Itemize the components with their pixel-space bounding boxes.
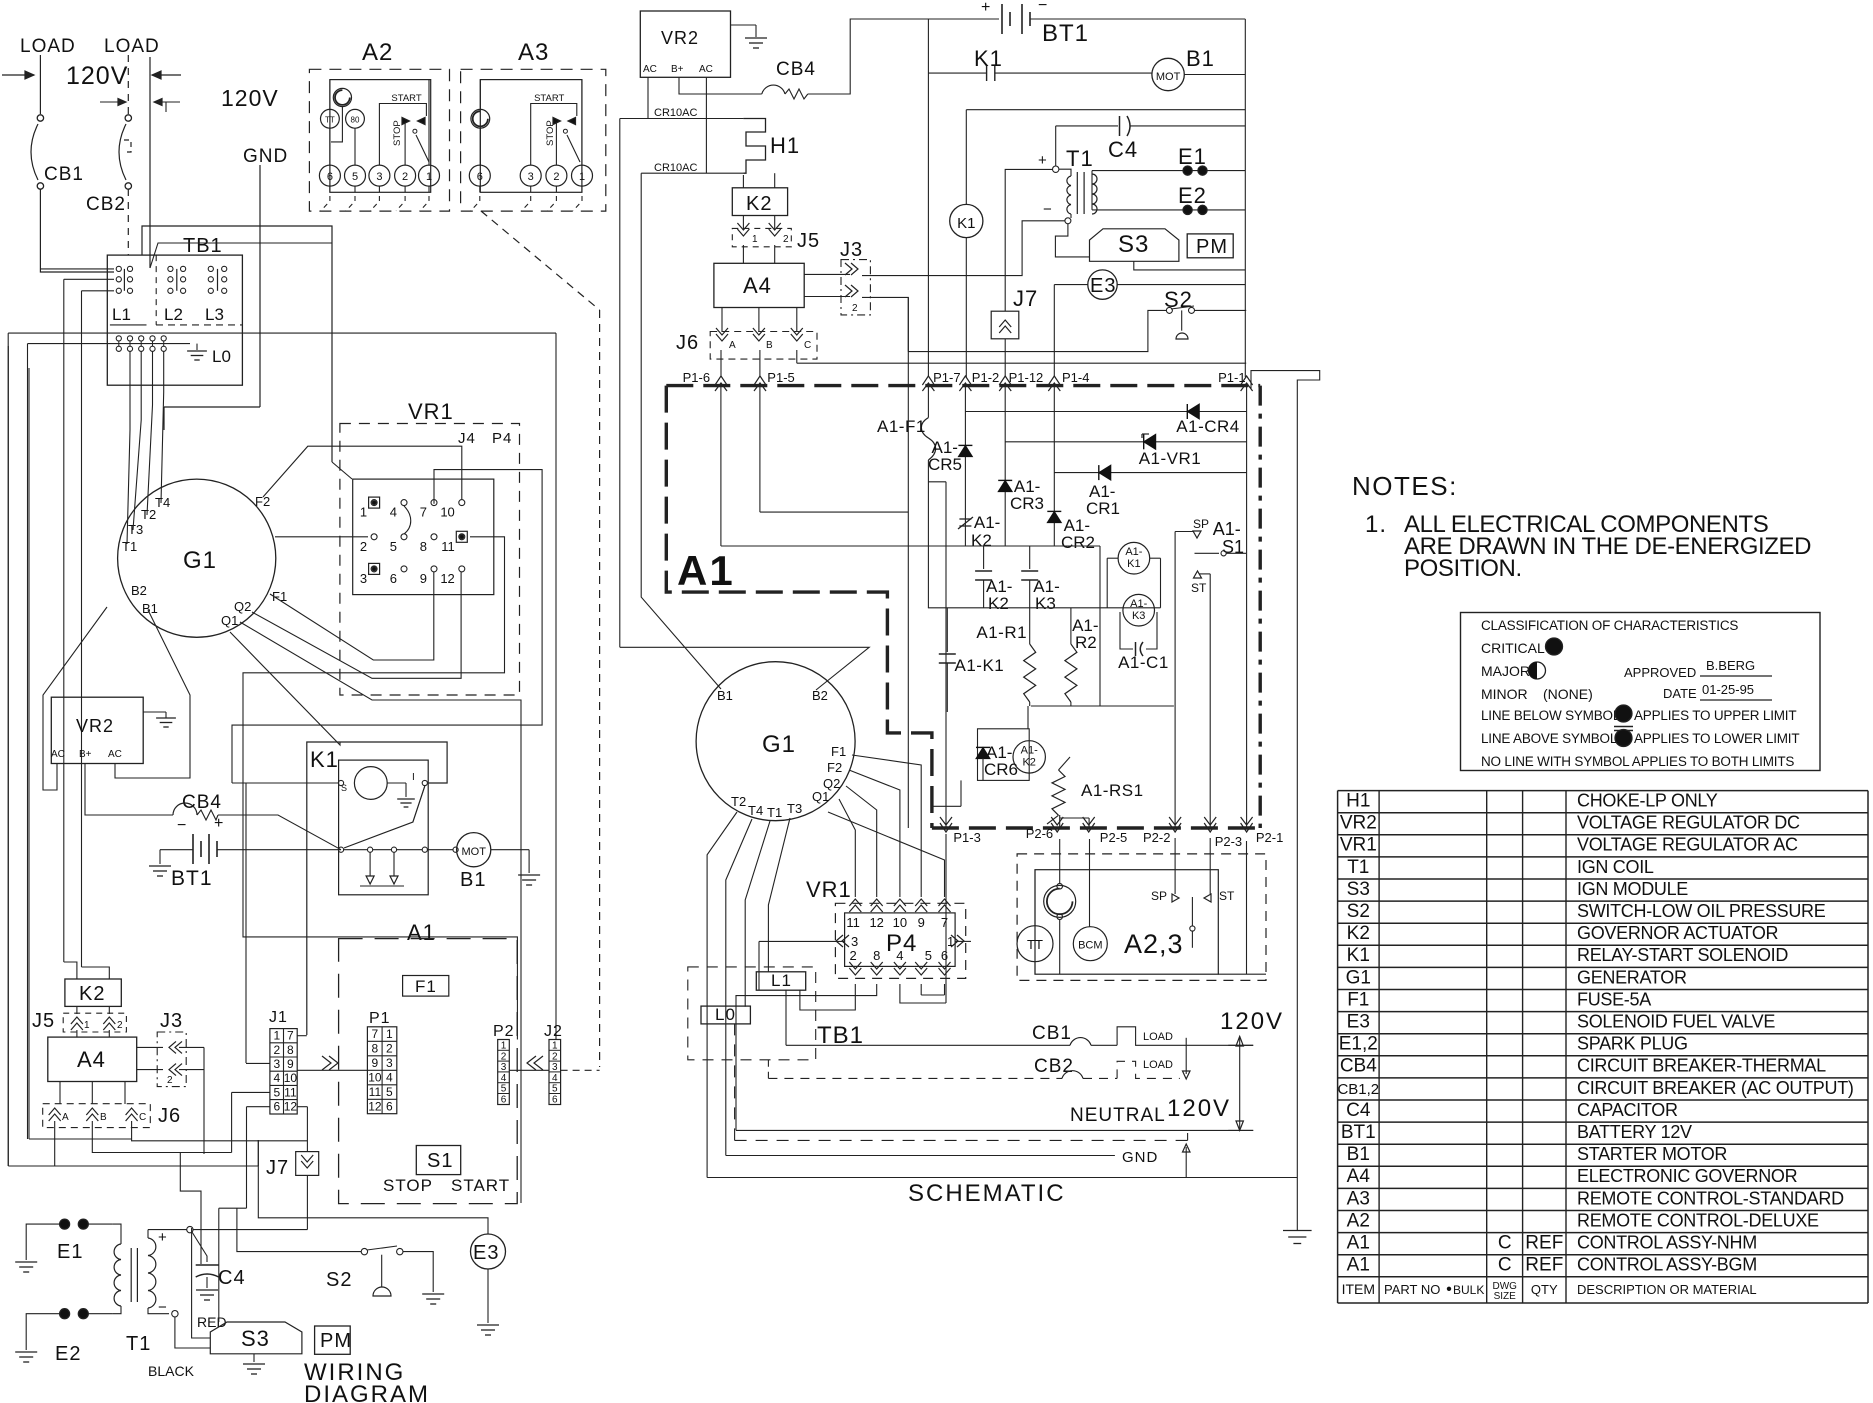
- svg-text:3: 3: [274, 1057, 281, 1071]
- svg-text:K1: K1: [1347, 945, 1370, 966]
- bottom bus: [1031, 705, 1174, 707]
- svg-text:A2: A2: [362, 39, 393, 66]
- svg-text:LOAD: LOAD: [104, 36, 160, 57]
- svg-text:TT: TT: [325, 116, 335, 125]
- 120V tall arrow: [1239, 1036, 1241, 1130]
- svg-text:1: 1: [579, 171, 585, 183]
- arrow into line2: [152, 74, 181, 76]
- choke H1: [743, 119, 765, 174]
- svg-text:PM: PM: [1196, 236, 1228, 258]
- svg-text:120V: 120V: [1220, 1008, 1284, 1035]
- svg-text:J7: J7: [266, 1157, 289, 1179]
- svg-text:RED: RED: [197, 1314, 227, 1330]
- svg-text:CR1: CR1: [1086, 499, 1120, 518]
- svg-text:P1-4: P1-4: [1062, 370, 1089, 385]
- svg-text:2: 2: [783, 234, 789, 245]
- svg-text:F2: F2: [255, 494, 270, 509]
- svg-text:120V: 120V: [1167, 1095, 1231, 1122]
- svg-text:9: 9: [420, 571, 427, 586]
- svg-text:CIRCUIT BREAKER-THERMAL: CIRCUIT BREAKER-THERMAL: [1577, 1056, 1826, 1076]
- svg-text:CRITICAL: CRITICAL: [1481, 640, 1545, 656]
- svg-text:APPLIES TO LOWER LIMIT: APPLIES TO LOWER LIMIT: [1634, 731, 1799, 746]
- svg-text:ITEM: ITEM: [1342, 1281, 1375, 1297]
- svg-text:T3: T3: [787, 801, 802, 816]
- svg-text:B.BERG: B.BERG: [1706, 658, 1755, 673]
- wires A4 bottom to J6: [721, 308, 723, 333]
- svg-text:CAPACITOR: CAPACITOR: [1577, 1100, 1678, 1120]
- VR1 internal wires: [243, 537, 517, 1040]
- wire AC left / CR10AC: [647, 77, 649, 118]
- svg-text:NO LINE WITH SYMBOL APPLIES TO: NO LINE WITH SYMBOL APPLIES TO BOTH LIMI…: [1481, 754, 1794, 769]
- svg-text:ST: ST: [1191, 581, 1207, 595]
- remote control A2,3 (schematic): [1017, 854, 1266, 981]
- svg-text:NOTES:: NOTES:: [1352, 471, 1458, 501]
- svg-text:B2: B2: [131, 583, 147, 598]
- svg-text:L1: L1: [112, 305, 131, 324]
- wires TB1 left entries: [40, 268, 114, 270]
- svg-text:C4: C4: [1346, 1100, 1371, 1121]
- svg-text:1: 1: [84, 1020, 90, 1031]
- svg-text:S: S: [341, 783, 347, 793]
- svg-text:7: 7: [372, 1027, 379, 1041]
- svg-text:2: 2: [501, 1051, 507, 1062]
- svg-text:GENERATOR: GENERATOR: [1577, 967, 1687, 987]
- svg-text:01-25-95: 01-25-95: [1702, 682, 1754, 697]
- svg-text:K1: K1: [1127, 558, 1140, 570]
- svg-text:T2: T2: [141, 507, 156, 522]
- svg-text:3: 3: [360, 571, 367, 586]
- svg-text:2: 2: [360, 539, 367, 554]
- TB1 upper terminals: [116, 266, 121, 271]
- contact cap A1-K3: [1029, 546, 1031, 569]
- svg-text:1: 1: [426, 171, 432, 183]
- governor A4 (wiring diagram): [48, 1037, 137, 1081]
- svg-text:BCM: BCM: [1078, 940, 1102, 952]
- svg-text:MAJOR: MAJOR: [1481, 663, 1530, 679]
- actuator K2 (wiring diagram): [65, 979, 121, 1006]
- svg-text:A1-K1: A1-K1: [955, 656, 1005, 675]
- svg-text:LOAD: LOAD: [20, 36, 76, 57]
- svg-text:R2: R2: [1075, 633, 1097, 652]
- svg-text:CONTROL ASSY-BGM: CONTROL ASSY-BGM: [1577, 1255, 1757, 1275]
- svg-text:1: 1: [501, 1041, 507, 1052]
- svg-text:J3: J3: [840, 239, 863, 261]
- svg-text:CR5: CR5: [928, 455, 962, 474]
- svg-text:CB2: CB2: [86, 194, 126, 215]
- svg-text:5: 5: [501, 1084, 507, 1095]
- svg-text:9: 9: [372, 1056, 379, 1070]
- svg-text:J5: J5: [797, 230, 820, 252]
- svg-text:ST: ST: [1219, 889, 1235, 903]
- svg-text:CB4: CB4: [1340, 1056, 1377, 1077]
- svg-text:5: 5: [352, 171, 358, 183]
- svg-text:C4: C4: [1108, 137, 1138, 162]
- svg-text:LOAD: LOAD: [1143, 1059, 1173, 1071]
- box L1: [756, 972, 805, 990]
- svg-text:NEUTRAL: NEUTRAL: [1070, 1105, 1166, 1126]
- ground at L0: [196, 344, 198, 350]
- svg-text:12: 12: [368, 1099, 382, 1113]
- CB lines left verticals: [785, 990, 787, 1046]
- svg-text:P4: P4: [492, 430, 512, 447]
- svg-text:VR2: VR2: [1340, 813, 1377, 834]
- svg-text:CR3: CR3: [1010, 494, 1044, 513]
- diode A1-CR6 + coil A1-K2 box: [978, 729, 1030, 781]
- small arrows at 120V second: [100, 101, 126, 103]
- svg-text:E1: E1: [57, 1241, 83, 1263]
- svg-text:9: 9: [918, 915, 925, 930]
- svg-text:VR2: VR2: [76, 716, 114, 736]
- svg-text:A2: A2: [1347, 1210, 1370, 1231]
- svg-text:F1: F1: [1347, 989, 1369, 1010]
- svg-text:BT1: BT1: [1341, 1122, 1376, 1143]
- parts list table: [1338, 790, 1868, 792]
- svg-text:LOAD: LOAD: [1143, 1031, 1173, 1043]
- svg-text:Q2: Q2: [234, 599, 251, 614]
- svg-text:C: C: [1498, 1233, 1512, 1254]
- svg-text:TB1: TB1: [183, 235, 223, 257]
- svg-text:J3: J3: [160, 1010, 183, 1032]
- svg-text:K2: K2: [971, 531, 992, 550]
- svg-text:SWITCH-LOW OIL PRESSURE: SWITCH-LOW OIL PRESSURE: [1577, 901, 1826, 921]
- spark plugs E1 E2 (schematic): [1092, 170, 1245, 172]
- wire LOAD line 1 with arrow: [2, 74, 34, 76]
- diode A1-CR4 row: [965, 411, 1246, 413]
- svg-text:A1-R1: A1-R1: [976, 623, 1027, 642]
- svg-text:3: 3: [552, 1062, 558, 1073]
- svg-text:T4: T4: [748, 803, 763, 818]
- svg-text:7: 7: [941, 915, 948, 930]
- P2 chevrons on bottom border: [940, 817, 952, 832]
- svg-text:6: 6: [390, 571, 397, 586]
- red wire to S3: [192, 1232, 207, 1262]
- svg-text:4: 4: [896, 948, 903, 963]
- svg-text:CHOKE-LP ONLY: CHOKE-LP ONLY: [1577, 791, 1718, 811]
- B2 wire long left: [620, 647, 869, 690]
- svg-text:E2: E2: [55, 1343, 81, 1365]
- right rail: [1244, 19, 1246, 377]
- wires J6 down to P1 chevrons: [720, 350, 722, 377]
- svg-text:FUSE-5A: FUSE-5A: [1577, 989, 1651, 1009]
- svg-text:B1: B1: [1186, 46, 1215, 71]
- voltage regulator VR2 (schematic): [640, 11, 730, 77]
- svg-text:5: 5: [390, 539, 397, 554]
- svg-text:K3: K3: [1035, 594, 1056, 613]
- svg-text:G1: G1: [762, 731, 796, 758]
- G1 stator wires to TB1: [127, 351, 130, 544]
- svg-text:A1-: A1-: [1130, 598, 1147, 610]
- svg-text:REF: REF: [1525, 1233, 1563, 1254]
- svg-text:START: START: [391, 93, 421, 104]
- svg-text:P1-12: P1-12: [1009, 370, 1044, 385]
- J3-2 / S2 leg: [907, 297, 909, 828]
- G1 F2 wire to VR1 pin10: [263, 446, 462, 499]
- svg-text:E3: E3: [1090, 275, 1116, 297]
- A2 internal wires: [329, 80, 331, 110]
- svg-text:6: 6: [477, 171, 483, 183]
- svg-text:K2: K2: [746, 193, 772, 215]
- svg-text:MINOR: MINOR: [1481, 686, 1528, 702]
- svg-text:GND: GND: [243, 146, 288, 167]
- schematic bottom rail: [707, 1177, 1297, 1179]
- svg-text:BULK: BULK: [1453, 1283, 1484, 1297]
- svg-text:J7: J7: [1013, 286, 1038, 311]
- svg-text:A1-: A1-: [1213, 519, 1241, 539]
- second rail: [966, 109, 1245, 111]
- svg-text:SP: SP: [1151, 889, 1167, 903]
- wires G1 right to P4 chevrons: [852, 755, 921, 897]
- capacitor C4 (schematic): [1056, 125, 1118, 127]
- svg-text:T1: T1: [767, 805, 782, 820]
- svg-text:3: 3: [376, 171, 382, 183]
- svg-text:P1: P1: [369, 1010, 391, 1027]
- svg-text:K3: K3: [1132, 610, 1145, 622]
- svg-text:DESCRIPTION OR MATERIAL: DESCRIPTION OR MATERIAL: [1577, 1282, 1757, 1297]
- svg-text:MOT: MOT: [1156, 71, 1181, 83]
- svg-text:2: 2: [274, 1043, 281, 1057]
- svg-text:K2: K2: [1347, 923, 1370, 944]
- SP/ST wires down to P2: [1175, 531, 1193, 533]
- A2 meter 80: [346, 109, 365, 128]
- box PM (schematic): [1187, 234, 1233, 258]
- svg-text:APPLIES TO UPPER LIMIT: APPLIES TO UPPER LIMIT: [1634, 708, 1796, 723]
- svg-text:A1-RS1: A1-RS1: [1081, 781, 1144, 800]
- svg-text:5: 5: [925, 948, 932, 963]
- svg-text:L2: L2: [164, 305, 183, 324]
- svg-text:A1-: A1-: [1125, 546, 1142, 558]
- svg-text:B+: B+: [79, 749, 92, 760]
- svg-text:−: −: [1043, 201, 1052, 218]
- wire LOAD line 2 dashed + CB2: [127, 55, 129, 114]
- svg-text:−: −: [158, 1299, 167, 1316]
- relay coil A1-K1: [1118, 542, 1150, 574]
- svg-text:B1: B1: [1347, 1144, 1370, 1165]
- svg-text:P1-3: P1-3: [953, 830, 980, 845]
- P1 chevrons on top border: [715, 376, 727, 391]
- svg-text:K2: K2: [1022, 757, 1035, 769]
- long horizontals to far left: [8, 332, 556, 334]
- jog to P1-3 leg: [928, 481, 946, 483]
- svg-text:T2: T2: [731, 794, 746, 809]
- svg-text:A4: A4: [1347, 1166, 1371, 1187]
- small box right of P1-1: [1251, 371, 1320, 1231]
- svg-text:S1: S1: [1222, 537, 1244, 557]
- svg-text:A1-CR4: A1-CR4: [1176, 417, 1239, 436]
- svg-text:6: 6: [327, 171, 333, 183]
- svg-text:K2: K2: [988, 594, 1009, 613]
- svg-text:A2,3: A2,3: [1124, 929, 1184, 959]
- svg-text:AC: AC: [51, 749, 65, 760]
- svg-text:G1: G1: [183, 547, 217, 574]
- svg-text:4: 4: [501, 1073, 507, 1084]
- svg-text:P1-1: P1-1: [1218, 370, 1245, 385]
- svg-text:7: 7: [287, 1029, 294, 1043]
- svg-text:PM: PM: [320, 1330, 352, 1352]
- svg-text:BT1: BT1: [171, 867, 213, 890]
- svg-text:REMOTE CONTROL-STANDARD: REMOTE CONTROL-STANDARD: [1577, 1188, 1844, 1208]
- svg-text:Q1: Q1: [812, 789, 829, 804]
- svg-text:11: 11: [369, 1085, 382, 1099]
- svg-text:S1: S1: [427, 1150, 453, 1172]
- relay coil A1-K3: [1123, 594, 1155, 626]
- svg-text:VR1: VR1: [408, 399, 454, 424]
- black wire to S3: [175, 1317, 210, 1348]
- svg-text:3: 3: [528, 171, 534, 183]
- svg-text:P1-7: P1-7: [933, 370, 960, 385]
- svg-text:5: 5: [386, 1085, 393, 1099]
- svg-text:5: 5: [552, 1084, 558, 1095]
- J4/P4 pins grid: [371, 500, 377, 506]
- svg-text:C: C: [1498, 1255, 1512, 1276]
- svg-text:L0: L0: [715, 1005, 736, 1024]
- A2 dashed stubs below: [329, 186, 331, 192]
- svg-text:10: 10: [368, 1070, 382, 1084]
- svg-text:REMOTE CONTROL-DELUXE: REMOTE CONTROL-DELUXE: [1577, 1210, 1819, 1230]
- svg-text:VR1: VR1: [806, 877, 852, 902]
- svg-text:J4: J4: [458, 430, 476, 447]
- svg-text:CB4: CB4: [182, 792, 222, 813]
- svg-text:6: 6: [941, 948, 948, 963]
- svg-text:S2: S2: [1347, 901, 1370, 922]
- solenoid fuel valve E3 (schematic): [1088, 270, 1117, 299]
- svg-text:1.: 1.: [1365, 511, 1387, 538]
- G1 to VR2 wires: [43, 607, 107, 790]
- P1-12 leg with diode A1-CR3: [1004, 385, 1006, 546]
- svg-text:P1-5: P1-5: [767, 370, 794, 385]
- svg-text:H1: H1: [770, 133, 800, 158]
- wire into P4 left: [759, 940, 845, 942]
- actuator K2 (schematic): [732, 188, 787, 216]
- diode A1-CR1 row: [1054, 472, 1246, 474]
- svg-text:4: 4: [274, 1071, 281, 1085]
- svg-text:3: 3: [386, 1056, 393, 1070]
- svg-text:10: 10: [440, 505, 454, 520]
- box PM: [315, 1326, 351, 1354]
- svg-text:−: −: [177, 817, 186, 834]
- svg-text:A1-VR1: A1-VR1: [1139, 449, 1202, 468]
- svg-text:APPROVED: APPROVED: [1624, 665, 1696, 680]
- svg-text:CB1,2: CB1,2: [1337, 1081, 1379, 1098]
- fuse A1-F1 on P1-7 leg: [927, 385, 929, 418]
- bus 1: [721, 545, 1100, 547]
- svg-text:E3: E3: [473, 1242, 499, 1264]
- svg-text:CLASSIFICATION OF CHARACTERIST: CLASSIFICATION OF CHARACTERISTICS: [1481, 618, 1738, 633]
- svg-text:J2: J2: [544, 1023, 563, 1040]
- wire at y363: [797, 362, 1246, 364]
- svg-text:2: 2: [402, 171, 408, 183]
- svg-text:CB1: CB1: [1032, 1023, 1072, 1044]
- svg-text:8: 8: [420, 539, 427, 554]
- svg-text:J1: J1: [269, 1009, 288, 1026]
- svg-text:CR2: CR2: [1061, 533, 1095, 552]
- svg-text:2: 2: [849, 948, 856, 963]
- svg-text:SP: SP: [1193, 517, 1209, 531]
- svg-text:8: 8: [873, 948, 880, 963]
- svg-text:+: +: [158, 1229, 167, 1246]
- A2 pin circles: [319, 165, 340, 186]
- svg-text:T1: T1: [122, 539, 137, 554]
- svg-text:H1: H1: [1346, 791, 1370, 812]
- svg-text:4: 4: [390, 505, 397, 520]
- misc long verticals: [232, 1091, 270, 1093]
- svg-text:J6: J6: [676, 332, 699, 354]
- capacitor C4 (wiring diagram): [196, 1264, 219, 1266]
- starter motor B1 (schematic): [1152, 58, 1184, 90]
- svg-text:T3: T3: [128, 522, 143, 537]
- classification of characteristics box: [1461, 613, 1821, 771]
- svg-text:VR1: VR1: [1340, 835, 1377, 856]
- svg-text:DIAGRAM: DIAGRAM: [304, 1381, 430, 1403]
- svg-text:CR10AC: CR10AC: [654, 107, 697, 119]
- svg-text:REF: REF: [1525, 1255, 1563, 1276]
- svg-text:A1-: A1-: [1021, 745, 1038, 757]
- svg-text:2: 2: [386, 1041, 393, 1055]
- svg-text:B1: B1: [717, 688, 733, 703]
- svg-text:+: +: [1038, 152, 1047, 169]
- svg-text:B+: B+: [671, 64, 684, 75]
- A3 ring lamp: [471, 109, 490, 128]
- wires G1 bottom to L0/L1: [707, 812, 737, 1178]
- svg-text:11: 11: [284, 1085, 297, 1099]
- svg-text:5: 5: [274, 1085, 281, 1099]
- svg-text:STARTER MOTOR: STARTER MOTOR: [1577, 1144, 1727, 1164]
- ignition coil T1 (wiring diagram): [112, 1224, 121, 1244]
- label GND + arrow: [726, 1155, 1115, 1157]
- svg-text:J6: J6: [158, 1105, 181, 1127]
- svg-text:A4: A4: [77, 1047, 106, 1072]
- svg-text:A1-F1: A1-F1: [877, 417, 926, 436]
- svg-text:1: 1: [552, 1041, 558, 1052]
- governor A4 (schematic): [714, 263, 804, 307]
- svg-text:+: +: [981, 0, 990, 16]
- svg-text:1: 1: [274, 1029, 281, 1043]
- svg-text:P2-3: P2-3: [1215, 834, 1242, 849]
- svg-text:GND: GND: [1122, 1149, 1158, 1166]
- svg-text:4: 4: [386, 1070, 393, 1084]
- svg-text:A3: A3: [1347, 1188, 1370, 1209]
- svg-text:STOP: STOP: [392, 120, 403, 146]
- relay coil K1 (schematic): [950, 204, 983, 237]
- svg-text:AC: AC: [643, 64, 657, 75]
- svg-text:P2-2: P2-2: [1143, 830, 1170, 845]
- dashed drop from A3 to J2: [481, 211, 600, 310]
- svg-text:12: 12: [440, 571, 454, 586]
- svg-text:AC: AC: [108, 749, 122, 760]
- left-side routing inside A1: [720, 386, 722, 546]
- svg-text:TT: TT: [1027, 937, 1043, 952]
- svg-text:PART NO: PART NO: [1384, 1282, 1440, 1297]
- generator G1 (wiring diagram): [118, 479, 276, 637]
- svg-text:2: 2: [852, 303, 858, 314]
- svg-text:2: 2: [117, 1020, 123, 1031]
- svg-text:AC: AC: [699, 64, 713, 75]
- svg-text:K1: K1: [957, 215, 975, 232]
- svg-text:K1: K1: [310, 747, 339, 772]
- svg-text:I: I: [412, 772, 415, 783]
- svg-text:9: 9: [287, 1057, 294, 1071]
- wires below J6: [55, 1121, 259, 1166]
- starter motor B1 (wiring diagram): [453, 847, 458, 852]
- wires below P2 chevrons: [945, 834, 947, 1003]
- svg-text:DATE: DATE: [1663, 686, 1697, 701]
- svg-text:3: 3: [851, 934, 858, 949]
- svg-text:E3: E3: [1347, 1012, 1370, 1033]
- A3 dashed stubs below: [479, 186, 481, 192]
- svg-text:CB4: CB4: [776, 59, 816, 80]
- svg-text:IGN MODULE: IGN MODULE: [1577, 879, 1688, 899]
- svg-text:11: 11: [441, 539, 455, 554]
- svg-text:BATTERY 12V: BATTERY 12V: [1577, 1122, 1692, 1142]
